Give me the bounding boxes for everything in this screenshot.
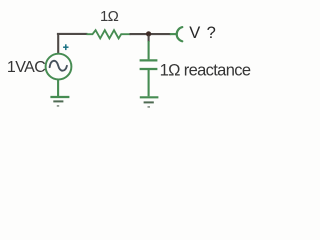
svg-text:V: V (189, 24, 200, 42)
svg-text:?: ? (207, 24, 216, 42)
svg-text:1Ω reactance: 1Ω reactance (160, 62, 251, 80)
svg-text:1VAC: 1VAC (7, 59, 45, 76)
svg-text:1Ω: 1Ω (100, 8, 119, 25)
